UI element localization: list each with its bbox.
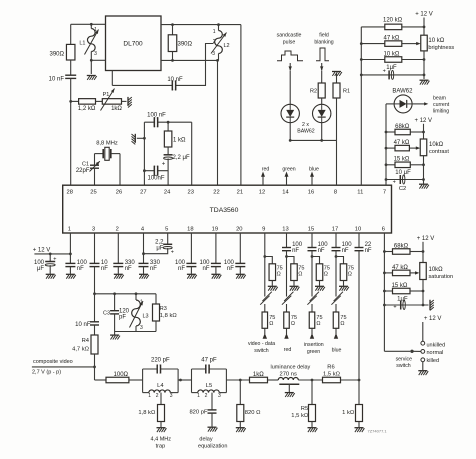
- svg-text:blanking: blanking: [314, 40, 333, 46]
- svg-text:21: 21: [237, 190, 243, 196]
- svg-text:switch: switch: [254, 348, 269, 354]
- svg-text:3: 3: [94, 51, 97, 57]
- svg-text:green: green: [282, 167, 295, 173]
- svg-text:red: red: [284, 347, 292, 353]
- svg-text:+: +: [53, 257, 56, 263]
- svg-text:10kΩ: 10kΩ: [429, 267, 444, 273]
- svg-text:composite video: composite video: [33, 359, 73, 365]
- svg-text:blue: blue: [309, 167, 319, 173]
- svg-text:15 kΩ: 15 kΩ: [394, 157, 410, 163]
- svg-text:L3: L3: [143, 314, 149, 320]
- svg-text:Ω: Ω: [348, 271, 352, 277]
- svg-text:10 kΩ: 10 kΩ: [428, 38, 444, 44]
- svg-text:1,5 kΩ: 1,5 kΩ: [291, 413, 309, 419]
- svg-text:47 kΩ: 47 kΩ: [394, 140, 410, 146]
- svg-text:BAW62: BAW62: [297, 128, 315, 134]
- svg-text:1,2 kΩ: 1,2 kΩ: [78, 106, 96, 112]
- svg-text:R1: R1: [343, 89, 350, 95]
- svg-text:nF: nF: [178, 266, 185, 272]
- svg-text:2: 2: [213, 39, 216, 45]
- svg-text:brightness: brightness: [428, 45, 454, 51]
- svg-text:13: 13: [282, 227, 288, 233]
- svg-text:nF: nF: [77, 266, 84, 272]
- svg-text:+: +: [162, 162, 166, 168]
- svg-text:26: 26: [116, 190, 122, 196]
- svg-text:+: +: [393, 304, 396, 310]
- svg-text:7Z74077.1: 7Z74077.1: [368, 429, 388, 434]
- svg-text:100nF: 100nF: [147, 176, 164, 182]
- svg-text:R6: R6: [327, 364, 334, 370]
- svg-text:2: 2: [116, 227, 119, 233]
- svg-text:limiting: limiting: [433, 109, 449, 115]
- svg-text:15: 15: [308, 227, 314, 233]
- svg-text:1μF: 1μF: [397, 296, 408, 302]
- svg-text:field: field: [319, 33, 329, 39]
- svg-text:10 μF: 10 μF: [395, 170, 411, 176]
- svg-text:nF: nF: [292, 248, 299, 254]
- svg-text:7: 7: [383, 190, 386, 196]
- svg-text:contrast: contrast: [429, 149, 449, 155]
- svg-text:3: 3: [218, 393, 221, 399]
- svg-text:luminance delay: luminance delay: [271, 364, 311, 370]
- svg-text:390Ω: 390Ω: [178, 41, 193, 47]
- svg-text:1,8 kΩ: 1,8 kΩ: [138, 410, 156, 416]
- svg-text:blue: blue: [332, 348, 342, 354]
- svg-text:2,7 V (p - p): 2,7 V (p - p): [32, 370, 61, 376]
- svg-text:green: green: [307, 349, 320, 355]
- svg-text:24: 24: [164, 190, 171, 196]
- svg-text:unkilled: unkilled: [427, 342, 446, 348]
- svg-text:BAW62: BAW62: [392, 89, 413, 95]
- svg-text:68kΩ: 68kΩ: [395, 124, 410, 130]
- svg-text:3: 3: [140, 325, 143, 331]
- svg-text:47 pF: 47 pF: [201, 358, 217, 364]
- svg-text:1: 1: [197, 393, 200, 399]
- svg-text:1 kΩ: 1 kΩ: [173, 138, 186, 144]
- svg-text:5: 5: [165, 227, 168, 233]
- svg-text:3: 3: [170, 393, 173, 399]
- svg-text:Ω: Ω: [324, 271, 328, 277]
- svg-text:+: +: [393, 180, 396, 186]
- svg-text:equalization: equalization: [198, 443, 227, 449]
- svg-text:8: 8: [334, 190, 337, 196]
- svg-text:1kΩ: 1kΩ: [253, 372, 264, 378]
- svg-text:14: 14: [282, 190, 289, 196]
- svg-text:+: +: [171, 249, 174, 255]
- svg-text:28: 28: [66, 190, 72, 196]
- svg-text:video - data: video - data: [248, 341, 275, 347]
- svg-text:9: 9: [262, 227, 265, 233]
- svg-text:17: 17: [332, 227, 338, 233]
- svg-text:2 x: 2 x: [302, 122, 309, 128]
- svg-text:100Ω: 100Ω: [114, 372, 129, 378]
- svg-text:4,4 MHz: 4,4 MHz: [151, 436, 172, 442]
- svg-text:R2: R2: [310, 89, 317, 95]
- svg-text:Ω: Ω: [291, 321, 295, 327]
- svg-text:270 ns: 270 ns: [279, 371, 297, 377]
- svg-text:15 kΩ: 15 kΩ: [392, 283, 408, 289]
- svg-text:10 nF: 10 nF: [75, 322, 91, 328]
- svg-text:2,2 μF: 2,2 μF: [173, 155, 190, 161]
- svg-text:+ 12 V: + 12 V: [33, 247, 51, 253]
- svg-text:switch: switch: [396, 363, 411, 369]
- svg-text:3: 3: [92, 227, 95, 233]
- svg-text:+ 12 V: + 12 V: [424, 316, 442, 322]
- svg-text:C2: C2: [399, 186, 406, 192]
- svg-text:820 Ω: 820 Ω: [245, 410, 261, 416]
- svg-text:delay: delay: [199, 436, 212, 442]
- svg-text:Ω: Ω: [298, 271, 302, 277]
- svg-text:Ω: Ω: [277, 271, 281, 277]
- svg-text:1,8 kΩ: 1,8 kΩ: [160, 313, 178, 319]
- svg-text:+ 12 V: + 12 V: [415, 118, 433, 124]
- svg-text:23: 23: [187, 190, 193, 196]
- svg-text:TDA3560: TDA3560: [210, 207, 239, 214]
- svg-text:12: 12: [259, 190, 265, 196]
- svg-text:11: 11: [357, 190, 363, 196]
- svg-text:nF: nF: [202, 266, 209, 272]
- svg-text:20: 20: [236, 227, 242, 233]
- svg-text:nF: nF: [342, 248, 349, 254]
- svg-text:68kΩ: 68kΩ: [394, 244, 409, 250]
- svg-text:beam: beam: [433, 96, 446, 102]
- svg-text:47 kΩ: 47 kΩ: [392, 265, 408, 271]
- svg-text:μF: μF: [37, 266, 44, 272]
- svg-text:18: 18: [187, 227, 193, 233]
- svg-text:Ω: Ω: [340, 321, 344, 327]
- svg-text:1kΩ: 1kΩ: [111, 106, 122, 112]
- svg-text:47 kΩ: 47 kΩ: [383, 35, 399, 41]
- svg-text:normal: normal: [427, 350, 444, 356]
- svg-text:2: 2: [205, 393, 208, 399]
- svg-text:R5: R5: [301, 406, 308, 412]
- svg-text:+: +: [383, 68, 386, 74]
- svg-text:+ 12 V: + 12 V: [415, 12, 433, 18]
- svg-text:R4: R4: [82, 338, 90, 344]
- svg-text:L2: L2: [224, 43, 230, 49]
- svg-text:2: 2: [156, 393, 159, 399]
- svg-text:red: red: [262, 167, 270, 173]
- svg-text:1,5 kΩ: 1,5 kΩ: [323, 371, 341, 377]
- svg-text:Ω: Ω: [269, 321, 273, 327]
- svg-text:27: 27: [140, 190, 146, 196]
- svg-text:killed: killed: [427, 358, 440, 364]
- svg-text:19: 19: [212, 227, 218, 233]
- svg-text:4,7 kΩ: 4,7 kΩ: [72, 347, 90, 353]
- svg-text:DL700: DL700: [123, 41, 143, 48]
- svg-text:saturation: saturation: [429, 274, 454, 280]
- svg-text:390Ω: 390Ω: [50, 51, 65, 57]
- svg-text:nF: nF: [101, 266, 108, 272]
- svg-text:10kΩ: 10kΩ: [429, 142, 444, 148]
- svg-text:10 kΩ: 10 kΩ: [383, 51, 399, 57]
- svg-text:820 pF: 820 pF: [189, 410, 208, 416]
- svg-text:C1: C1: [82, 161, 89, 167]
- svg-text:R3: R3: [160, 306, 167, 312]
- svg-text:22pF: 22pF: [76, 168, 90, 174]
- svg-text:Ω: Ω: [316, 321, 320, 327]
- svg-text:nF: nF: [150, 266, 157, 272]
- svg-text:C3: C3: [103, 311, 110, 317]
- svg-text:10: 10: [355, 227, 361, 233]
- svg-text:insertion: insertion: [304, 342, 324, 348]
- svg-text:+ 12 V: + 12 V: [417, 236, 435, 242]
- svg-text:nF: nF: [365, 248, 372, 254]
- svg-text:220 pF: 220 pF: [151, 358, 170, 364]
- svg-text:L4: L4: [157, 383, 164, 389]
- svg-text:service: service: [396, 357, 413, 363]
- svg-text:trap: trap: [156, 443, 165, 449]
- svg-text:P1: P1: [103, 92, 110, 98]
- svg-text:1: 1: [213, 29, 216, 35]
- svg-text:22: 22: [213, 190, 219, 196]
- svg-text:10 nF: 10 nF: [49, 76, 65, 82]
- svg-text:pulse: pulse: [283, 40, 296, 46]
- svg-text:nF: nF: [125, 266, 132, 272]
- svg-text:pF: pF: [119, 315, 126, 321]
- svg-text:1 kΩ: 1 kΩ: [342, 410, 355, 416]
- svg-text:nF: nF: [318, 248, 325, 254]
- svg-text:nF: nF: [227, 266, 234, 272]
- svg-text:1μF: 1μF: [386, 65, 397, 71]
- svg-text:8,8 MHz: 8,8 MHz: [96, 140, 118, 146]
- svg-text:6: 6: [382, 227, 385, 233]
- svg-text:sandcastle: sandcastle: [277, 33, 302, 39]
- svg-text:L1: L1: [79, 41, 85, 47]
- svg-text:120 kΩ: 120 kΩ: [383, 18, 403, 24]
- svg-text:current: current: [433, 102, 450, 108]
- svg-text:25: 25: [90, 190, 96, 196]
- svg-text:L5: L5: [206, 383, 212, 389]
- svg-text:μF: μF: [156, 245, 163, 251]
- svg-text:1: 1: [68, 227, 71, 233]
- svg-text:1: 1: [148, 393, 151, 399]
- svg-text:16: 16: [308, 190, 314, 196]
- svg-text:100 nF: 100 nF: [147, 113, 166, 119]
